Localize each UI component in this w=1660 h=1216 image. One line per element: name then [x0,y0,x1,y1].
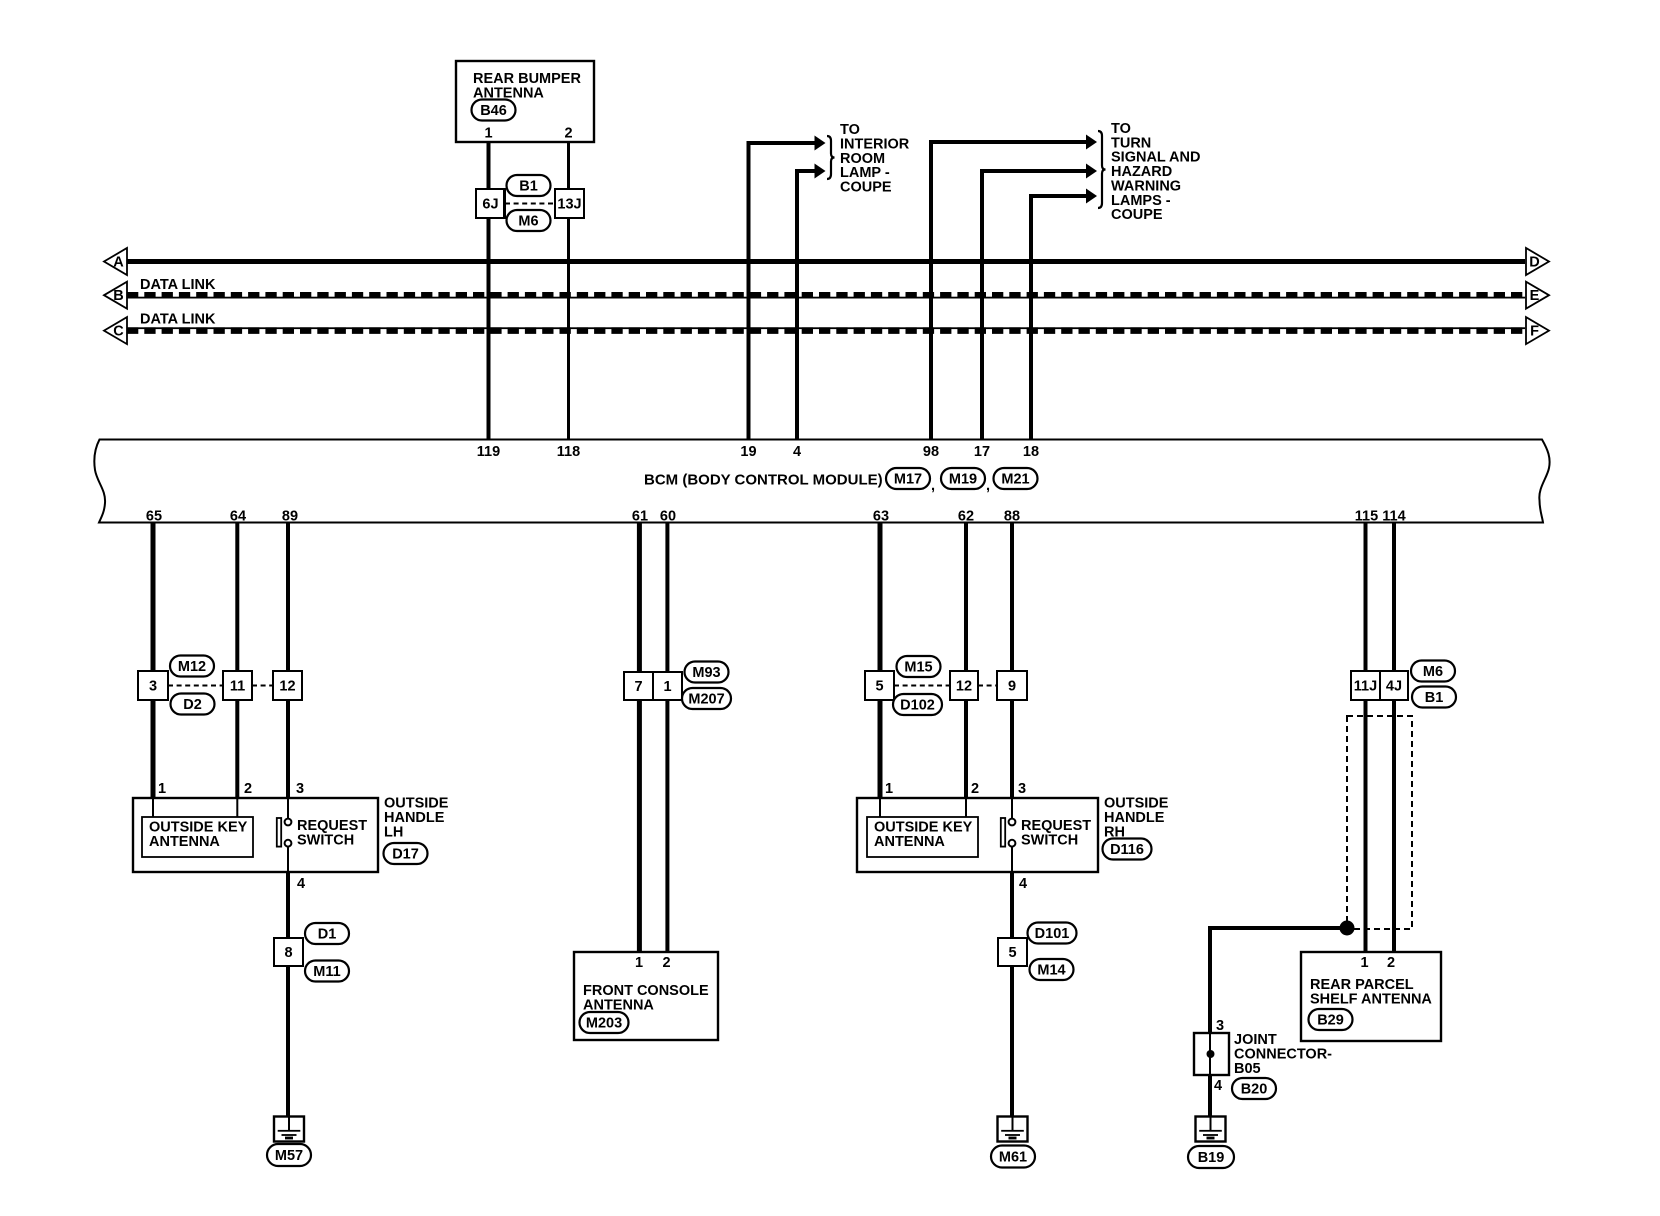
svg-text:98: 98 [923,444,939,460]
svg-text:B46: B46 [480,103,507,119]
svg-text:63: 63 [873,509,889,525]
svg-text:1: 1 [635,955,643,971]
svg-text:119: 119 [477,444,500,460]
svg-text:B05: B05 [1234,1061,1261,1077]
svg-text:114: 114 [1382,509,1405,525]
svg-text:D2: D2 [183,697,202,713]
svg-text:4: 4 [1019,876,1027,892]
svg-text:118: 118 [557,444,580,460]
svg-text:1: 1 [158,781,166,797]
svg-text:11J: 11J [1354,679,1377,695]
svg-text:1: 1 [1360,955,1368,971]
svg-text:ANTENNA: ANTENNA [149,834,220,850]
svg-text:D102: D102 [900,698,935,714]
svg-text:F: F [1530,324,1539,340]
svg-text:4: 4 [1214,1078,1222,1094]
svg-text:88: 88 [1004,509,1020,525]
svg-text:M93: M93 [692,665,720,681]
svg-text:LH: LH [384,825,403,841]
svg-text:2: 2 [564,126,572,142]
svg-text:9: 9 [1008,679,1016,695]
svg-text:2: 2 [244,781,252,797]
svg-text:,: , [986,478,990,494]
svg-text:2: 2 [971,781,979,797]
svg-text:M6: M6 [1423,664,1443,680]
svg-text:3: 3 [149,679,157,695]
svg-text:B20: B20 [1241,1082,1268,1098]
svg-text:4: 4 [297,876,305,892]
svg-text:11: 11 [230,679,245,695]
svg-text:DATA LINK: DATA LINK [140,312,216,328]
svg-text:ANTENNA: ANTENNA [874,834,945,850]
svg-text:D17: D17 [392,847,419,863]
svg-text:13J: 13J [557,197,581,213]
svg-text:8: 8 [284,945,292,961]
svg-text:SHELF ANTENNA: SHELF ANTENNA [1310,992,1432,1008]
svg-text:M12: M12 [178,659,206,675]
svg-text:B1: B1 [1425,690,1444,706]
svg-text:3: 3 [296,781,304,797]
svg-text:6J: 6J [482,197,498,213]
svg-text:115: 115 [1355,509,1378,525]
svg-text:D1: D1 [318,927,337,943]
svg-text:SWITCH: SWITCH [297,833,354,849]
svg-text:BCM (BODY CONTROL MODULE): BCM (BODY CONTROL MODULE) [644,472,883,489]
svg-text:7: 7 [634,679,642,695]
svg-text:C: C [113,324,124,340]
svg-text:62: 62 [958,509,974,525]
svg-text:M17: M17 [894,472,922,488]
svg-text:D: D [1529,255,1539,271]
svg-text:3: 3 [1216,1018,1224,1034]
svg-text:M11: M11 [313,964,340,980]
svg-text:M6: M6 [518,214,538,230]
svg-text:M21: M21 [1001,472,1029,488]
svg-text:M61: M61 [999,1150,1027,1166]
svg-text:1: 1 [885,781,893,797]
svg-text:89: 89 [282,509,298,525]
svg-text:17: 17 [974,444,990,460]
svg-text:M14: M14 [1037,963,1065,979]
svg-text:A: A [113,255,124,271]
svg-text:DATA LINK: DATA LINK [140,277,216,293]
svg-text:12: 12 [956,679,972,695]
svg-text:4: 4 [793,444,801,460]
svg-text:,: , [931,478,935,494]
svg-text:18: 18 [1023,444,1039,460]
svg-text:2: 2 [1387,955,1395,971]
svg-text:M207: M207 [688,692,724,708]
svg-text:M57: M57 [275,1148,303,1164]
svg-text:B: B [113,288,123,304]
svg-text:COUPE: COUPE [1111,207,1163,223]
svg-text:D116: D116 [1110,842,1144,858]
svg-text:4J: 4J [1386,679,1402,695]
svg-text:1: 1 [484,126,492,142]
svg-text:65: 65 [146,509,162,525]
svg-text:B1: B1 [519,179,538,195]
svg-text:COUPE: COUPE [840,180,892,196]
svg-text:M203: M203 [586,1016,622,1032]
svg-text:5: 5 [1008,945,1016,961]
svg-text:B19: B19 [1198,1150,1225,1166]
svg-text:61: 61 [632,509,648,525]
svg-text:3: 3 [1018,781,1026,797]
svg-text:2: 2 [662,955,670,971]
svg-text:B29: B29 [1317,1013,1344,1029]
svg-text:19: 19 [740,444,756,460]
svg-text:12: 12 [279,679,295,695]
svg-text:M15: M15 [904,660,932,676]
svg-text:D101: D101 [1035,926,1070,942]
svg-text:64: 64 [230,509,246,525]
svg-text:M19: M19 [949,472,977,488]
svg-text:1: 1 [663,679,671,695]
svg-text:5: 5 [875,679,883,695]
svg-text:SWITCH: SWITCH [1021,833,1078,849]
svg-text:E: E [1530,288,1540,304]
svg-text:60: 60 [660,509,676,525]
